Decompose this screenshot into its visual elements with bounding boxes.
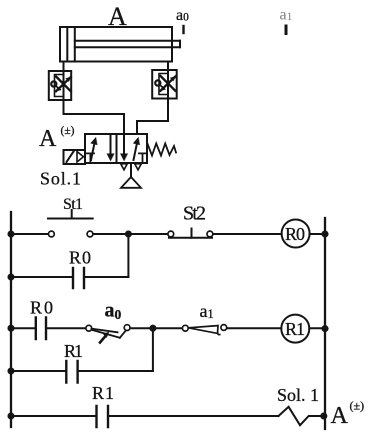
solenoid box Sol.1: [64, 150, 86, 164]
flow control valve FR (right): [152, 70, 177, 99]
limit contact a0: [86, 325, 130, 343]
node left rail rung3: [8, 413, 15, 420]
piston rod: [75, 40, 180, 42]
svg-text:Sol.1: Sol.1: [40, 169, 81, 189]
wire through FL down: [63, 71, 65, 100]
node right rail rung2: [322, 325, 329, 332]
wire FR to valve port B: [137, 99, 168, 135]
solenoid coil zigzag Sol.1: [279, 407, 324, 425]
R0 branch wire: [11, 276, 72, 278]
valve right cell blocked port T: [139, 153, 146, 162]
St2 closed bar: [169, 237, 212, 239]
node right rail rung1: [322, 231, 329, 238]
node left rail branch R1: [8, 368, 15, 375]
svg-text:Sol. 1: Sol. 1: [277, 385, 319, 405]
coil R0: [282, 220, 310, 248]
contact R0 (rung1 branch): [73, 268, 84, 288]
svg-text:A: A: [331, 403, 349, 429]
limit contact a1: [182, 325, 226, 335]
node left rail rung1: [8, 231, 15, 238]
coil R1: [281, 315, 309, 343]
pressure source line: [130, 163, 132, 178]
svg-text:a1: a1: [280, 7, 293, 24]
rung 3 wire segments: [11, 415, 96, 417]
svg-text:A: A: [108, 2, 127, 31]
svg-text:a1: a1: [200, 301, 214, 321]
sensor a0 position tick: [182, 26, 184, 33]
wire cylinder left port to flow valve L: [63, 62, 65, 72]
svg-text:R0: R0: [285, 224, 305, 244]
pushbutton St2 contact circles: [168, 231, 174, 237]
wire FL to valve port A: [64, 100, 125, 134]
St1 actuator: [48, 210, 93, 219]
valve left cell blocked port T: [87, 153, 94, 162]
node left rail branch R0: [8, 274, 15, 281]
svg-text:A: A: [39, 126, 57, 152]
node rung1/branch junction: [125, 231, 132, 238]
left rail: [10, 212, 12, 427]
R1 branch riser: [152, 328, 154, 371]
rung 2 wire segments: [11, 327, 35, 329]
pressure source triangle: [121, 177, 141, 188]
return spring: [147, 143, 176, 156]
right rail: [324, 218, 326, 429]
wire cylinder right port to flow valve R: [167, 62, 169, 71]
node rung2 mid junction: [150, 325, 157, 332]
valve V1 body (5/2): [85, 134, 147, 163]
svg-text:R0: R0: [30, 298, 53, 318]
valve right cell up arrow: [133, 137, 140, 160]
svg-text:St2: St2: [183, 203, 206, 225]
rung 1 wire segments: [11, 233, 49, 235]
svg-text:R1: R1: [64, 341, 83, 361]
valve right cell down arrow: [120, 134, 127, 161]
sensor a1 position tick: [285, 26, 288, 34]
svg-text:St1: St1: [63, 196, 83, 213]
valve left cell down arrow: [107, 135, 114, 161]
node rung3 right junction: [320, 413, 327, 420]
exhaust triangle right: [135, 164, 142, 170]
contact R1 (rung2 branch): [66, 361, 77, 383]
R0 branch riser: [127, 234, 129, 277]
cylinder A body: [60, 27, 172, 62]
R1 branch wire: [11, 370, 65, 372]
pushbutton St1 contact circles: [49, 231, 55, 237]
piston (double line): [66, 27, 68, 62]
St2 actuator stem: [191, 229, 193, 238]
valve cell divider: [116, 134, 118, 163]
flow control valve FL (left): [49, 71, 71, 100]
svg-text:R1: R1: [285, 319, 305, 339]
contact R0 (rung2): [36, 318, 46, 340]
valve left cell up arrow: [91, 137, 98, 160]
svg-text:(±): (±): [350, 399, 365, 413]
svg-text:(±): (±): [61, 125, 75, 137]
exhaust triangle left: [121, 164, 128, 170]
svg-text:R1: R1: [92, 383, 114, 403]
svg-text:a0: a0: [176, 7, 189, 24]
node left rail rung2: [8, 325, 15, 332]
contact R1 (rung3): [97, 406, 109, 427]
svg-text:a0: a0: [105, 300, 122, 322]
wire through FR down: [167, 70, 169, 99]
svg-text:R0: R0: [69, 248, 91, 268]
